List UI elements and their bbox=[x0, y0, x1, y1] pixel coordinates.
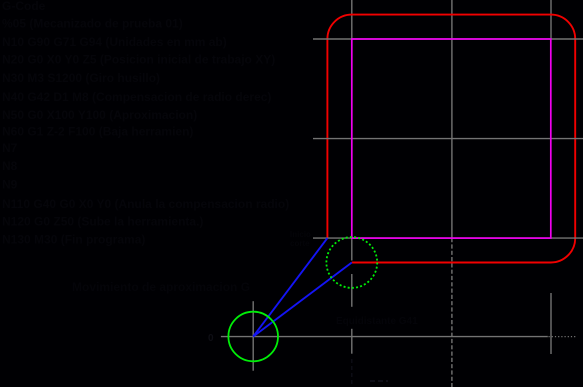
svg-text:N8: N8 bbox=[2, 159, 18, 173]
grid v-line x=351.8 lower segment a2 bbox=[351, 274, 353, 307]
svg-text:N130 M30 (Fin programa): N130 M30 (Fin programa) bbox=[2, 233, 145, 247]
x-axis h-line y=336.6 bbox=[221, 336, 548, 338]
svg-text:0: 0 bbox=[208, 333, 214, 344]
crosshair v at x=551 on axis bbox=[550, 293, 552, 354]
grid h-line y=238.1 bbox=[313, 237, 583, 239]
magenta programmed contour bbox=[352, 39, 551, 238]
blue rapid move to path start bbox=[253, 263, 352, 337]
green dotted tool circle at path start bbox=[326, 237, 377, 288]
x-axis dotted extension bbox=[549, 336, 578, 338]
svg-text:N7: N7 bbox=[2, 141, 18, 155]
svg-text:G-Code: G-Code bbox=[2, 0, 46, 13]
dark dashed continuation of v-line x=351.8 bbox=[351, 359, 353, 385]
grid v-line x=351.8 upper bbox=[351, 0, 353, 238]
grid h-line y=138.6 bbox=[313, 138, 583, 140]
blue rapid move to path end bbox=[253, 238, 327, 336]
svg-text:N50 G0 X100 Y100 (Aproximacion: N50 G0 X100 Y100 (Aproximacion) bbox=[2, 108, 197, 122]
svg-text:N60 G1 Z-2 F100 (Baja herramie: N60 G1 Z-2 F100 (Baja herramien) bbox=[2, 125, 193, 139]
dark arrow mark near bottom bbox=[370, 380, 388, 382]
svg-text:N120 G0 Z50 (Sube la herramien: N120 G0 Z50 (Sube la herramienta.) bbox=[2, 215, 203, 229]
svg-text:corte: corte bbox=[290, 239, 310, 248]
svg-text:N10 G90 G71 G94 (Unidades en m: N10 G90 G71 G94 (Unidades en mm ab) bbox=[2, 35, 227, 49]
grid v-line x=351.8 lower segment a bbox=[351, 238, 353, 260]
grid v-line x=451.9 dashed lower bbox=[451, 238, 453, 387]
grid h-line y=39 bbox=[313, 38, 583, 40]
grid v-line x=551 upper bbox=[550, 0, 552, 39]
grid v-line x=451.9 solid upper bbox=[451, 0, 453, 238]
svg-text:Equidistante G41: Equidistante G41 bbox=[336, 316, 418, 327]
svg-text:N20 G0 X0 Y0 Z5 (Posicion inic: N20 G0 X0 Y0 Z5 (Posicion inicial de tra… bbox=[2, 53, 275, 67]
svg-text:N9: N9 bbox=[2, 178, 18, 192]
green tool circle at origin bbox=[228, 312, 278, 362]
red compensated toolpath bbox=[327, 15, 575, 263]
grid v-line x=351.8 lower segment b bbox=[351, 329, 353, 354]
svg-text:%05 (Mecanizado de prueba 01): %05 (Mecanizado de prueba 01) bbox=[2, 17, 183, 31]
svg-text:N110 G40 G0 X0 Y0 (Anula la co: N110 G40 G0 X0 Y0 (Anula la compensacion… bbox=[2, 197, 289, 211]
svg-text:Movimiento de aproximacion G: Movimiento de aproximacion G bbox=[72, 280, 250, 294]
svg-text:N30 M3 S1200 (Giro husillo): N30 M3 S1200 (Giro husillo) bbox=[2, 71, 160, 85]
svg-text:Inicio: Inicio bbox=[290, 230, 311, 239]
svg-text:N40 G42 D1 M8 (Compensacion de: N40 G42 D1 M8 (Compensacion de radio der… bbox=[2, 90, 271, 104]
origin crosshair vertical x=253.2 bbox=[252, 301, 254, 371]
